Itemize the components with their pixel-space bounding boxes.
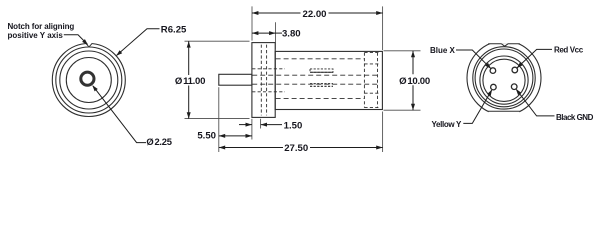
svg-text:Ø11.00: Ø11.00: [175, 76, 205, 87]
cavity hidden rung 3: [364, 92, 378, 94]
leader Black GND: [516, 90, 554, 116]
ext line 22.00 right: [382, 6, 384, 50]
leader Ø2.25: [93, 86, 146, 143]
ext line 22.00 left: [251, 6, 253, 40]
left view ring 2: [56, 47, 122, 113]
center hole Ø2.25: [81, 72, 94, 85]
right view ring 3: [475, 49, 533, 107]
svg-text:27.50: 27.50: [284, 143, 308, 154]
dim tail 3.80: [276, 32, 283, 34]
arrow 27.50 left: [219, 146, 225, 150]
dim line Ø10 upper: [412, 51, 414, 75]
flange hidden vertical 1: [260, 45, 262, 116]
dim tail 1.50 right: [261, 124, 282, 126]
sensor element solid base: [310, 71, 333, 73]
top flat chord: [488, 43, 520, 45]
svg-text:Blue X: Blue X: [430, 46, 456, 55]
svg-text:5.50: 5.50: [197, 130, 216, 141]
arrow 3.80 left: [252, 31, 258, 35]
left view middle circle: [66, 58, 111, 103]
pin 3 (Yellow Y, bottom-left): [491, 84, 497, 90]
svg-text:Yellow Y: Yellow Y: [432, 120, 463, 129]
svg-text:3.80: 3.80: [282, 28, 301, 39]
leadframe hidden line 1: [310, 83, 333, 85]
dim line Ø10 lower: [412, 85, 414, 110]
svg-text:positive Y axis: positive Y axis: [8, 31, 64, 40]
ext line flange-left below (1.50/5.50): [251, 119, 253, 140]
arrow 22.00 left: [252, 11, 258, 15]
arrowhead R6.25: [116, 50, 122, 56]
mounting flange: [252, 43, 275, 118]
flange bore hidden top: [252, 68, 285, 70]
flange hidden vertical 2: [266, 45, 268, 116]
ext line Ø10 top: [384, 50, 421, 52]
arrow Ø10 down: [411, 104, 415, 110]
ext line 3.80 right: [275, 22, 277, 49]
top flat erase: [489, 38, 520, 44]
dim line 27.50 right part: [310, 147, 383, 149]
leader Blue X: [456, 50, 491, 68]
pin 2 (Red Vcc, top-right): [512, 67, 518, 73]
notch V lines: [86, 43, 92, 47]
cavity hidden vertical left: [363, 53, 365, 108]
leadframe hidden line 2: [310, 85, 333, 87]
bottom flat erase: [489, 111, 520, 116]
svg-text:Black GND: Black GND: [556, 113, 594, 122]
pin 4 (Black GND, bottom-right): [511, 84, 517, 90]
svg-text:Notch for aligning: Notch for aligning: [8, 22, 75, 31]
svg-text:1.50: 1.50: [284, 120, 303, 131]
arrowhead Blue X: [485, 63, 491, 69]
arrow 3.80 right: [269, 31, 275, 35]
arrowhead at notch: [82, 39, 88, 45]
cavity hidden rung 1: [364, 52, 378, 54]
arrow 1.50 left(inward): [246, 123, 252, 127]
arrow Ø11 down: [187, 112, 191, 118]
dim line Ø11 upper: [188, 41, 190, 75]
body bore hidden line 1: [276, 58, 365, 60]
dim line 22.00 left part: [252, 12, 301, 14]
dim tail 1.50 left: [239, 124, 252, 126]
arrowhead Ø2.25: [92, 85, 98, 91]
dim line Ø11 lower: [188, 86, 190, 119]
ext line 1.50 right: [260, 119, 262, 129]
arrow 27.50 right: [376, 146, 382, 150]
arrowhead Black GND: [516, 89, 522, 95]
shaft bore hidden bottom: [252, 83, 377, 85]
cavity hidden rung 2: [364, 63, 378, 65]
arrowhead Yellow Y: [487, 89, 492, 96]
leader Yellow Y: [463, 90, 491, 123]
dim line 27.50 left part: [219, 147, 283, 149]
ext line Ø11 bottom: [185, 118, 250, 120]
right view cavity inner circle: [483, 59, 525, 101]
arrow 1.50 right(inward): [261, 123, 267, 127]
svg-text:R6.25: R6.25: [161, 25, 187, 36]
svg-text:Ø10.00: Ø10.00: [399, 76, 430, 87]
bottom flat chord: [488, 110, 520, 112]
arrow 5.50 left: [219, 134, 225, 138]
arrow Ø11 up: [187, 41, 191, 47]
ext line shaft-left (5.50/27.50): [218, 87, 220, 152]
left view ring 3: [60, 51, 118, 109]
main body: [275, 51, 382, 109]
arrow Ø10 up: [411, 51, 415, 57]
arrow 5.50 right: [246, 134, 252, 138]
svg-text:Red Vcc: Red Vcc: [554, 46, 584, 55]
body bore hidden line 4: [276, 97, 365, 99]
leader R6.25: [117, 29, 160, 56]
key notch V: [501, 44, 508, 46]
dim line 5.50: [219, 135, 252, 137]
right view outer circle: [467, 41, 541, 115]
ext line 27.50 right: [382, 112, 384, 153]
leader to notch: [64, 35, 88, 45]
left view outer circle (R6.25): [52, 44, 125, 117]
flange bore hidden bottom: [252, 91, 285, 93]
arrowhead Red Vcc: [517, 62, 523, 68]
cavity hidden rung 4: [364, 107, 378, 109]
leader Red Vcc: [517, 49, 552, 67]
right view cavity outer circle: [480, 56, 528, 104]
arrow 22.00 right: [376, 11, 382, 15]
shaft bore hidden top: [252, 74, 377, 76]
svg-text:Ø2.25: Ø2.25: [146, 136, 171, 147]
dim line 3.80: [252, 32, 276, 34]
svg-text:22.00: 22.00: [302, 9, 326, 20]
notch cut (white wedge): [86, 42, 93, 48]
ext line Ø10 bottom: [384, 109, 421, 111]
cavity hidden vertical right: [377, 53, 379, 108]
ext line Ø11 top: [185, 40, 250, 42]
dim line 22.00 right part: [329, 12, 383, 14]
right view ring 2: [473, 47, 535, 109]
key notch erase: [501, 43, 508, 44]
sensor element (hidden): [310, 69, 333, 72]
shaft (stem): [219, 74, 252, 85]
pin 1 (Blue X, top-left): [490, 68, 496, 74]
